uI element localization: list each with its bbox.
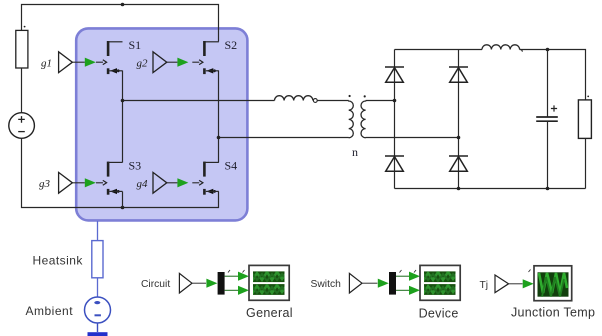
top rail of output (395, 49, 483, 51)
diode D2 (449, 67, 468, 82)
ambient temperature source (85, 297, 111, 323)
wire secondary bottom to bridge (366, 137, 459, 139)
voltage source V_dc (9, 113, 35, 139)
node cap top (546, 48, 550, 52)
svg-text:g4: g4 (137, 178, 149, 190)
node D4 leg on bottom rail (457, 187, 461, 191)
svg-text:Switch: Switch (311, 279, 342, 290)
wire resistor to source (21, 68, 23, 113)
thermal wire box to heatsink (97, 221, 99, 241)
top rail wire (22, 5, 219, 42)
node S1 drain junction (121, 3, 125, 7)
svg-text:S4: S4 (225, 159, 238, 173)
scope General (249, 265, 289, 300)
bridge right leg (458, 50, 460, 189)
node bridge left mid (393, 99, 397, 103)
svg-text:Heatsink: Heatsink (33, 254, 84, 268)
wire secondary top to bridge (366, 100, 395, 102)
wire source bottom to bottom net (22, 138, 219, 207)
svg-text:S3: S3 (129, 159, 142, 173)
thermal wire heatsink to ambient (97, 278, 99, 297)
bridge left leg (394, 50, 396, 189)
wire S3 source down (122, 192, 124, 208)
scope Junction Temp (534, 266, 572, 301)
svg-text:Junction Temp: Junction Temp (511, 306, 595, 320)
wire midline node A to transformer (123, 100, 275, 102)
thermal ground (97, 323, 99, 332)
subsystem highlight box (76, 28, 247, 220)
transistor S2 (192, 41, 219, 74)
wire node B lower to transformer (219, 137, 349, 139)
heatsink (92, 241, 103, 278)
inductor L_leak (275, 96, 313, 101)
svg-text:Device: Device (419, 307, 459, 321)
diode D3 (385, 156, 404, 171)
resistor R_in (16, 30, 28, 68)
svg-text:Ambient: Ambient (26, 304, 74, 318)
transformer secondary (361, 101, 366, 139)
transistor S3 (96, 162, 123, 195)
capacitor C (547, 50, 549, 117)
svg-text:Circuit: Circuit (141, 279, 170, 290)
svg-text:g2: g2 (137, 58, 149, 70)
mux M1 (218, 272, 225, 295)
diode D4 (449, 156, 468, 171)
inductor L_out (482, 45, 520, 50)
svg-text:g3: g3 (39, 178, 51, 190)
svg-text:n: n (352, 145, 358, 159)
svg-text:Tj: Tj (480, 280, 489, 291)
node S3 source junction (121, 206, 125, 210)
svg-text:S1: S1 (129, 38, 142, 52)
svg-text:General: General (246, 306, 293, 320)
scope Device (420, 265, 460, 300)
transistor S4 (192, 162, 219, 195)
load resistor R_load (578, 100, 591, 138)
diode D1 (385, 67, 404, 82)
transistor S1 (96, 41, 123, 74)
node capacitor leg on bottom rail (546, 187, 550, 191)
mux M2 (389, 272, 396, 295)
node bridge right mid (457, 136, 461, 140)
svg-text:S2: S2 (225, 38, 238, 52)
wire left leg S1 source to S3 drain (122, 71, 124, 163)
transformer primary (349, 101, 354, 139)
bottom rail (395, 188, 586, 190)
wire right leg S2 source to S4 drain (218, 71, 220, 163)
svg-text:g1: g1 (41, 58, 52, 70)
